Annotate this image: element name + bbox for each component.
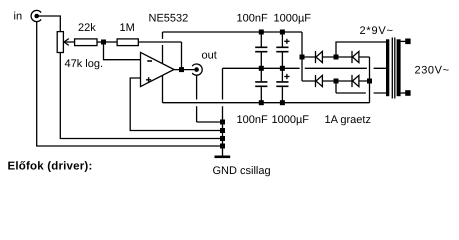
wire bridge right connector [369, 57, 371, 81]
svg-text:100nF: 100nF [237, 13, 268, 25]
wire op-amp V+ to positive rail (gap at feedback crossing) [162, 32, 164, 64]
ground bar GND csillag [215, 156, 231, 159]
node star junction 2 [220, 128, 225, 133]
diode D3 [316, 75, 323, 87]
transformer TR1 core [392, 38, 395, 99]
capacitor C1 plates [255, 47, 267, 51]
svg-text:Előfok (driver):: Előfok (driver): [8, 160, 93, 172]
wire AC1 to transformer top [336, 42, 386, 57]
svg-text:in: in [14, 11, 23, 23]
svg-text:NE5532: NE5532 [149, 13, 189, 25]
svg-text:230V~: 230V~ [415, 65, 450, 77]
transformer TR1 secondary winding [386, 39, 389, 96]
wire bridge V+ vertical [301, 32, 303, 81]
wire bridge row1 segments [302, 56, 370, 58]
svg-text:out: out [202, 50, 217, 62]
diode D2 [352, 51, 359, 63]
transformer TR1 primary winding [397, 39, 401, 96]
connector J1 in jack [31, 10, 41, 21]
node star junction 3 [220, 136, 225, 141]
svg-text:1M: 1M [120, 22, 135, 34]
node bridge row1 left junction [300, 55, 305, 60]
node cap mid rail junction 2 [280, 66, 285, 71]
potentiometer P1 47k log body [57, 32, 63, 53]
wire op-amp output to out jack [174, 69, 194, 71]
wire primary bottom stub [401, 92, 406, 94]
capacitor C3 100nF bottom leads [260, 68, 262, 102]
diode D4 [352, 75, 359, 87]
node cap top rail junction 1 [259, 30, 264, 35]
resistor 22k body [75, 39, 97, 46]
node primary bottom terminal [405, 90, 410, 96]
capacitor C4 1000uF bottom leads [281, 68, 283, 102]
node output junction [179, 67, 184, 72]
node bridge right junction [367, 79, 372, 84]
node A junction [101, 40, 106, 45]
wire positive rail top [163, 31, 303, 33]
wire bridge row2 segments [302, 80, 370, 82]
wire pot bottom to star ground [60, 53, 220, 139]
node cap bottom rail junction 1 [259, 100, 264, 105]
svg-text:1000µF: 1000µF [272, 114, 310, 126]
node primary top terminal [405, 39, 410, 45]
capacitor C1 100nF top leads [260, 32, 262, 68]
op-amp minus sign [147, 60, 152, 62]
svg-text:1A graetz: 1A graetz [325, 114, 371, 126]
capacitor C2 1000uF top leads [281, 32, 283, 68]
wire AC2 to transformer bottom (gap at V- drop) [336, 81, 386, 93]
node star junction 1 [220, 120, 225, 125]
connector J2 out jack [192, 64, 202, 75]
wire op-amp V- down [162, 75, 164, 102]
wire 22k to node A [97, 41, 101, 43]
wire out jack ground down (gap at negative rail) [197, 75, 221, 122]
capacitor C4 plates [276, 82, 288, 86]
wire bridge to negative rail [369, 81, 371, 103]
capacitor C4 plus mark [284, 74, 289, 79]
wire node A to 1M [106, 41, 117, 43]
svg-text:100nF: 100nF [237, 114, 268, 126]
wire node A to inverting input [104, 44, 141, 59]
op-amp plus sign [146, 77, 151, 82]
node cap mid rail junction 1 [259, 66, 264, 71]
svg-text:1000µF: 1000µF [274, 13, 312, 25]
wire in jack ground down [37, 22, 221, 146]
wire GND rail down to star (gap at negative rail) [222, 68, 224, 155]
svg-text:22k: 22k [78, 22, 96, 34]
wire GND middle rail (gaps at bridge verticals) [223, 67, 387, 69]
node bridge AC1 junction [334, 55, 339, 60]
node cap top rail junction 2 [280, 30, 285, 35]
capacitor C2 plates [276, 47, 288, 51]
node bridge AC2 junction [334, 79, 339, 84]
wire non-inverting input to star ground [130, 78, 220, 131]
node star junction 4 [220, 144, 225, 149]
potentiometer wiper arrow [64, 39, 75, 46]
wire primary top stub [401, 40, 406, 42]
node cap bottom rail junction 2 [280, 100, 285, 105]
svg-text:47k log.: 47k log. [65, 58, 104, 70]
capacitor C2 plus mark [284, 39, 289, 44]
wire negative rail [163, 102, 370, 104]
diode D1 [316, 51, 323, 63]
wire feedback 1M to output node [138, 42, 181, 67]
capacitor C3 plates [255, 82, 267, 86]
wire in jack tip to pot top [38, 16, 60, 32]
op-amp U1 triangle [141, 52, 175, 86]
svg-text:2*9V~: 2*9V~ [360, 25, 394, 37]
svg-text:GND csillag: GND csillag [213, 165, 271, 177]
resistor 1M body [117, 39, 138, 46]
